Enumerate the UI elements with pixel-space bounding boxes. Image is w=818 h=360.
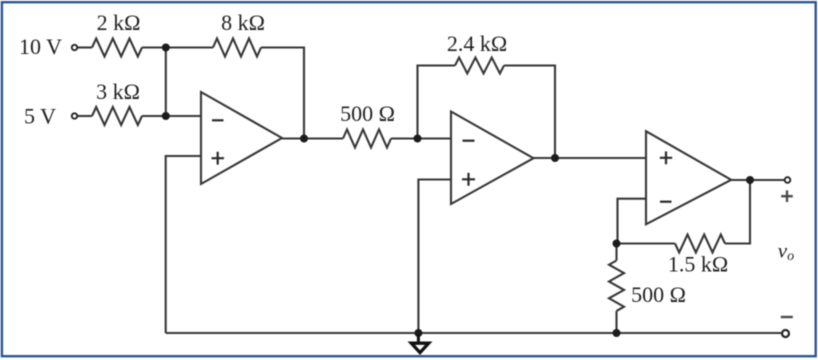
wire 3k to U1 inverting input [142,115,201,117]
junction node B [162,112,170,120]
wire 500 to U2 inverting input [391,137,451,139]
label plus polarity [781,190,793,202]
wire node A to node B vertical [165,48,167,117]
junction node C [414,135,422,143]
junction node A [162,44,170,52]
wire U1 output to R 500 [282,137,343,139]
op-amp U1 [201,92,282,184]
resistor 500 Ohm series [343,130,391,148]
wire 500 shunt to bottom rail [615,311,617,333]
ground symbol [411,334,428,353]
svg-text:500 Ω: 500 Ω [631,282,686,307]
label minus polarity [781,316,793,318]
U3 minus sign [660,201,672,203]
U2 plus sign [462,173,475,186]
junction U3 output [746,176,754,184]
resistor 1.5 kOhm [675,235,725,253]
U1 plus sign [212,152,225,165]
junction U1 output [300,135,308,143]
wire 2.4k down to U2 output [504,66,555,159]
wire 2k to 8k through node A [142,46,213,48]
svg-text:2.4 kΩ: 2.4 kΩ [447,31,507,56]
U2 minus sign [463,140,475,142]
svg-text:1.5 kΩ: 1.5 kΩ [668,252,728,277]
svg-text:2 kΩ: 2 kΩ [97,10,141,35]
resistor 3 kOhm [92,107,142,125]
wire U3 inverting input down to node D [618,199,647,244]
resistor 2 kOhm [92,39,142,57]
svg-text:3 kΩ: 3 kΩ [96,79,140,104]
U1 minus sign [212,119,224,121]
svg-text:500 Ω: 500 Ω [340,101,395,126]
wire U3 output feedback down to R 1.5k [725,180,750,244]
svg-text:8 kΩ: 8 kΩ [221,10,265,35]
terminal output minus [782,330,789,337]
wire U2 output to U3 noninverting input [534,157,647,159]
resistor 500 Ohm shunt vertical [609,261,624,311]
op-amp U2 [451,112,534,205]
resistor 2.4 kOhm [455,58,504,74]
wire 8k to op-amp U1 output [261,48,304,139]
svg-text:5 V: 5 V [24,103,56,128]
wire 1.5k to node D [618,242,676,244]
wire node C up to feedback R 2.4k [418,66,456,139]
U3 plus sign [660,151,672,164]
junction node D [613,240,621,248]
wire U1 noninverting input to bottom rail [166,156,201,333]
wire U3 output to terminal [731,179,784,181]
wire 10V input to R 2k [78,46,92,48]
resistor 8 kOhm [213,39,261,57]
junction ground node [414,329,422,337]
svg-text:10 V: 10 V [19,34,62,59]
terminal 5 V [72,113,77,118]
wire bottom rail [166,332,782,334]
wire 5V input to R 3k [78,115,92,117]
wire node D to R 500 shunt [615,244,617,261]
junction node E [613,329,621,337]
terminal output plus [785,177,791,183]
wire U2 noninverting input to ground rail [418,180,451,334]
terminal 10 V [72,45,77,50]
junction U2 output [551,154,559,162]
op-amp U3 [646,131,731,224]
